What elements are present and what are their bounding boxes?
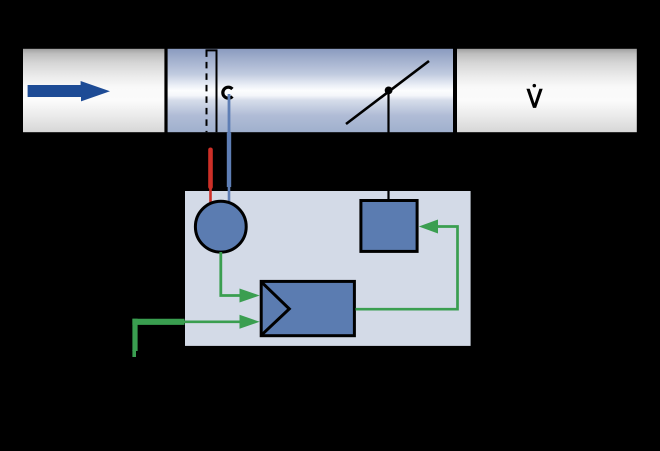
red signal line thick [208, 150, 213, 187]
duct right section [457, 49, 637, 132]
airflow arrow [28, 81, 110, 101]
blue signal line thick (outside) [227, 133, 231, 188]
flow probe solid line with top cap [207, 50, 217, 132]
arrowhead into controller (lower) [240, 315, 260, 329]
actuator box [361, 201, 417, 252]
green output line controller to actuator [356, 227, 458, 310]
flow probe dashed line [206, 50, 208, 132]
duct middle section (VAV box) [168, 49, 453, 132]
red signal line thin (inside controller box) [209, 186, 212, 206]
setpoint line tail (thin bottom) [132, 350, 136, 357]
setpoint line horizontal thick [132, 319, 184, 325]
label V (volume flow) [526, 89, 542, 108]
blue signal line thin (inside duct) [228, 94, 231, 133]
pressure transducer circle [195, 201, 246, 252]
damper blade [346, 61, 429, 124]
damper shaft [387, 91, 389, 201]
setpoint line thin (inside box) [185, 320, 241, 323]
green line transducer to controller [221, 252, 240, 296]
arrowhead into controller (upper) [240, 289, 260, 303]
amplifier chevron [262, 283, 289, 334]
blue signal line thin (inside controller box) [228, 186, 231, 206]
damper pivot [385, 87, 393, 95]
duct left section [23, 49, 164, 132]
controller (amplifier) rect [261, 281, 354, 335]
controller enclosure box [185, 191, 471, 346]
arrowhead into actuator [419, 220, 438, 234]
pressure tap c [223, 87, 233, 98]
setpoint line vertical thick [132, 319, 137, 351]
dot above V [533, 84, 537, 88]
